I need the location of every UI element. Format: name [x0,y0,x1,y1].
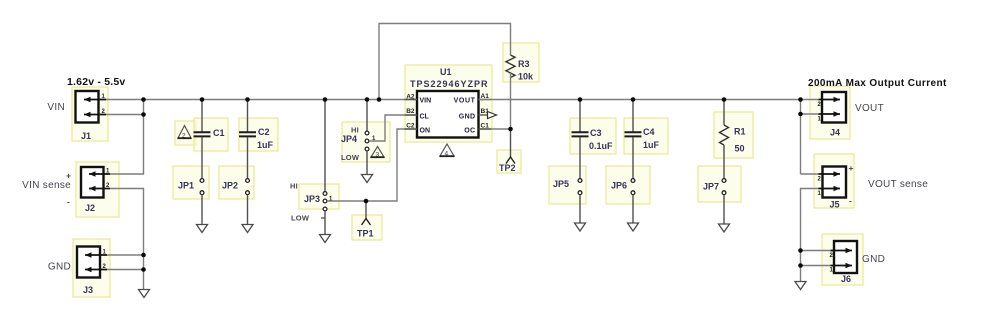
svg-text:VIN: VIN [47,102,65,113]
capacitor C1 [194,132,211,136]
ground below JP3 [320,235,331,243]
svg-text:TP1: TP1 [357,229,374,239]
svg-text:C1: C1 [213,128,225,138]
svg-text:JP1: JP1 [178,181,194,191]
svg-text:GND: GND [862,254,885,265]
ground below JP5 [575,223,586,231]
wire J5 bottom to J6/gnd vertical [801,189,819,282]
ground below JP2 [242,225,253,233]
svg-text:TP2: TP2 [499,163,516,173]
capacitor C2 [239,132,256,136]
svg-text:C3: C3 [590,128,602,138]
wire JP4 riser [366,100,368,132]
wire JP3 middle to ON pin [327,129,417,201]
wire R1 top lead [723,100,725,126]
ground below JP6 [628,223,639,231]
resistor R3 [506,55,515,78]
jumper JP5 [578,179,582,195]
wire J4 pin1 feed [801,113,819,115]
svg-text:C4: C4 [643,127,655,137]
svg-text:VOUT: VOUT [855,103,884,114]
wire R3 to OC [510,73,512,129]
svg-text:J3: J3 [83,285,93,295]
svg-text:JP5: JP5 [553,179,569,189]
svg-text:VOUT sense: VOUT sense [868,179,928,190]
svg-text:50: 50 [735,144,745,154]
ground below J6 [795,282,806,290]
ground below JP1 [197,225,208,233]
capacitor C3 [572,132,589,136]
wire JP4 middle to CL pin [369,115,417,141]
svg-text:1.62v - 5.5v: 1.62v - 5.5v [67,76,125,88]
connector J1 [47,91,106,141]
svg-text:0.1uF: 0.1uF [589,141,613,151]
svg-text:3: 3 [376,152,380,159]
svg-text:ON: ON [420,128,431,135]
wire C2 top lead [247,100,249,132]
svg-text:10k: 10k [518,72,534,82]
svg-text:R3: R3 [518,59,530,69]
svg-text:LOW: LOW [291,214,310,223]
wire J2 pin2 to J3/gnd vertical [110,189,144,290]
note triangle 3 [371,147,385,159]
svg-text:C2: C2 [406,123,415,130]
wire OC pin [479,128,511,130]
svg-text:TPS22946YZPR: TPS22946YZPR [410,79,489,89]
wire J5 top feed [801,173,819,175]
jumper JP3 [323,192,327,211]
wire JP4 low to ground [366,151,368,175]
jumper JP4 [365,131,369,151]
svg-text:JP7: JP7 [703,182,719,192]
svg-text:-: - [849,196,852,206]
svg-text:-: - [67,197,70,207]
svg-text:R1: R1 [734,127,746,137]
svg-text:1uF: 1uF [257,140,274,150]
jumper JP2 [246,179,250,195]
svg-text:4: 4 [445,151,449,158]
connector J2 [22,167,110,213]
svg-text:U1: U1 [440,67,452,77]
GND flag on U1 [488,112,497,119]
wire J1/J2 vertical [110,100,144,175]
svg-text:A2: A2 [406,94,415,101]
wire C1 top lead [201,100,203,132]
wire C4 top lead [632,100,634,132]
test point TP1 [357,201,374,239]
ground below JP7 [719,224,730,232]
svg-text:J2: J2 [85,203,95,213]
note triangle 2 [178,126,192,140]
ground below J3 [139,290,150,298]
svg-text:VIN sense: VIN sense [22,180,71,191]
svg-text:J5: J5 [830,200,840,210]
svg-text:200mA Max Output Current: 200mA Max Output Current [808,78,947,89]
svg-text:+: + [66,171,71,181]
capacitor C4 [625,132,642,136]
note triangle 4 under U1 [440,144,455,158]
svg-text:JP3: JP3 [304,194,320,204]
wire J3 pin2 feed [107,269,144,271]
connector J3 [48,247,107,296]
svg-text:JP6: JP6 [611,181,627,191]
highlight boxes [72,43,863,297]
svg-text:C2: C2 [258,127,270,137]
jumper JP6 [631,179,635,195]
ground below JP4 [362,175,373,183]
svg-text:LOW: LOW [341,153,360,162]
wire J3 pin1 feed [107,254,144,256]
svg-text:C1: C1 [481,123,490,130]
svg-text:J6: J6 [841,274,851,284]
svg-text:2: 2 [182,133,186,140]
wire J6 pin feeds [801,250,831,252]
jumper JP1 [200,179,204,195]
svg-text:VIN: VIN [420,98,432,105]
wire J4 vertical to J5 [800,100,802,175]
connector J4 [818,92,884,138]
svg-text:JP4: JP4 [341,134,357,144]
svg-text:GND: GND [48,262,71,273]
svg-text:VOUT: VOUT [454,98,476,105]
svg-text:B2: B2 [406,108,415,115]
svg-text:GND: GND [459,114,476,121]
connector J5 [818,163,929,210]
wire VIN rail [106,99,417,101]
wire C3 top lead [579,100,581,132]
wire VOUT rail [479,99,819,101]
wire JP3 low to ground [324,211,326,235]
wire JP3 riser [324,100,326,192]
svg-text:HI: HI [290,182,298,191]
svg-text:CL: CL [420,114,430,121]
jumper JP7 [722,179,726,195]
svg-text:+: + [849,163,854,173]
svg-text:J4: J4 [830,128,840,138]
wire top feedback loop [379,24,511,100]
IC U1 TPS22946YZPR [405,67,492,138]
resistor R1 [720,125,729,145]
wire J1 pin2 feed [106,114,144,116]
svg-text:OC: OC [464,128,475,135]
svg-text:J1: J1 [81,131,91,141]
svg-text:JP2: JP2 [222,181,238,191]
test point TP2 [499,129,516,173]
svg-text:1uF: 1uF [643,140,660,150]
connector J6 [830,241,886,284]
